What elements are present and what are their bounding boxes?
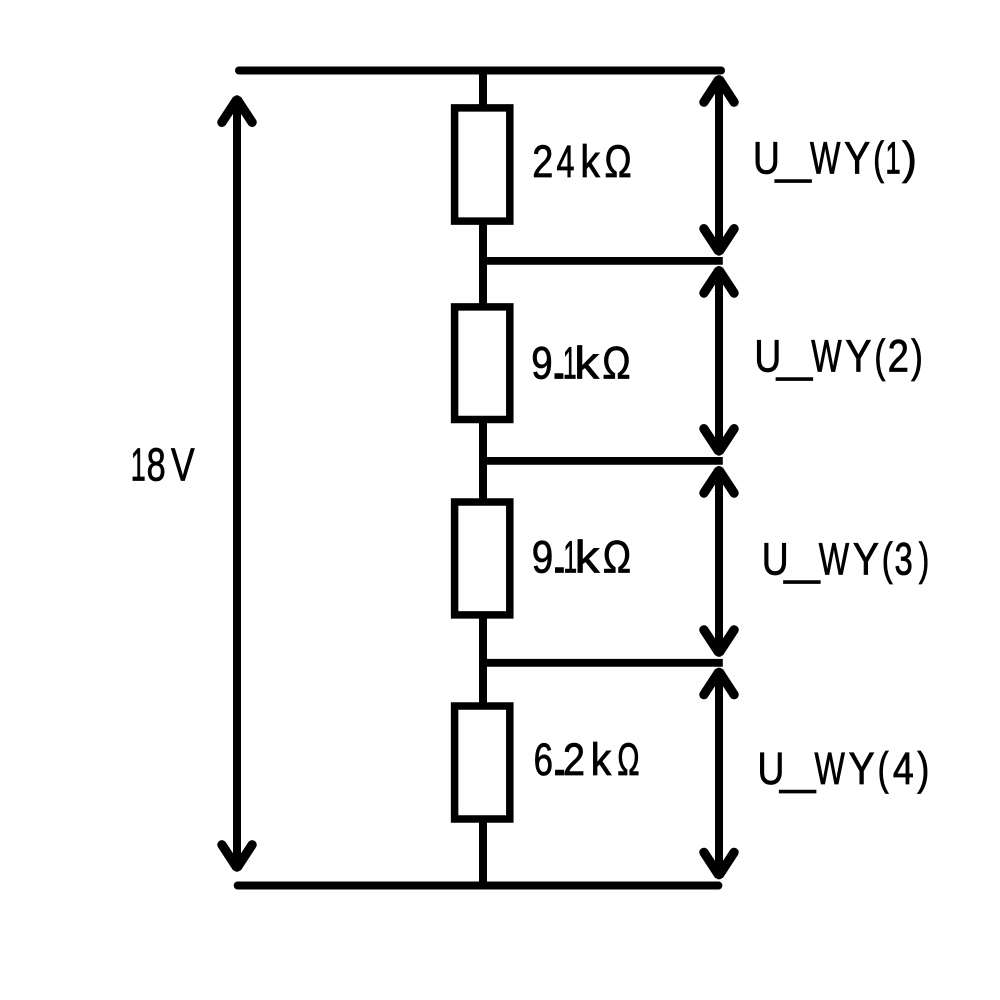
svg-text:(: ( [874, 330, 885, 381]
svg-text:4: 4 [893, 743, 914, 794]
svg-text:Ω: Ω [603, 531, 631, 582]
svg-text:W: W [811, 330, 842, 381]
svg-text:2: 2 [532, 136, 553, 187]
svg-text:): ) [919, 534, 929, 585]
svg-text:W: W [819, 534, 850, 585]
svg-text:W: W [815, 743, 846, 794]
svg-text:(: ( [882, 534, 893, 585]
svg-text:k: k [580, 136, 600, 187]
svg-text:3: 3 [895, 534, 913, 585]
svg-text:Y: Y [849, 743, 875, 794]
svg-text:1: 1 [885, 133, 900, 184]
svg-text:(: ( [878, 743, 889, 794]
svg-text:V: V [171, 439, 195, 491]
svg-text:2: 2 [563, 734, 585, 785]
svg-text:W: W [810, 133, 841, 184]
svg-text:Ω: Ω [602, 338, 630, 389]
svg-text:2: 2 [888, 330, 909, 381]
svg-text:Y: Y [853, 534, 879, 585]
svg-text:k: k [591, 734, 612, 785]
svg-text:k: k [574, 338, 599, 389]
svg-text:_: _ [775, 133, 812, 184]
svg-text:_: _ [783, 534, 820, 585]
svg-text:8: 8 [147, 439, 166, 491]
svg-text:(: ( [873, 133, 884, 184]
svg-text:): ) [917, 743, 929, 794]
svg-text:_: _ [776, 330, 813, 381]
svg-text:_: _ [779, 743, 816, 794]
svg-text:k: k [575, 531, 600, 582]
svg-text:Ω: Ω [617, 734, 639, 785]
svg-text:Ω: Ω [604, 136, 631, 187]
svg-text:Y: Y [844, 133, 870, 184]
svg-text:4: 4 [556, 136, 574, 187]
svg-text:): ) [911, 330, 923, 381]
svg-text:): ) [902, 133, 917, 184]
svg-text:Y: Y [845, 330, 871, 381]
svg-text:1: 1 [131, 439, 146, 491]
